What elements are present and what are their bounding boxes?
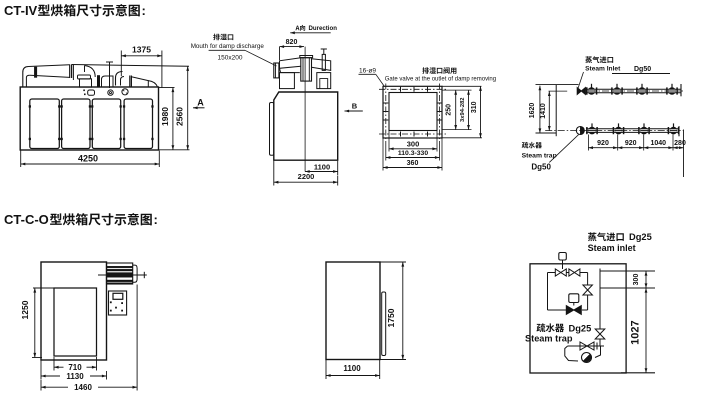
dim 300 cco	[645, 271, 647, 288]
cco fan	[98, 263, 147, 284]
steam inlet labels cco	[588, 232, 624, 241]
cco front body	[41, 262, 107, 360]
dim 1027	[621, 372, 655, 374]
side door leaf	[270, 103, 274, 156]
svg-text:250: 250	[445, 104, 452, 116]
svg-text:1040: 1040	[651, 140, 667, 147]
dim 4250	[20, 151, 22, 168]
svg-text:Dg25: Dg25	[629, 232, 652, 242]
cco side door leaf	[382, 292, 386, 356]
svg-text:1100: 1100	[343, 364, 361, 373]
svg-text:1100: 1100	[314, 162, 330, 171]
cco control panel	[109, 291, 127, 315]
dim 710	[53, 357, 55, 371]
svg-text:820: 820	[286, 39, 298, 46]
steam trap labels	[522, 142, 542, 148]
dim 1100 cco	[325, 360, 327, 379]
dim 1460	[136, 285, 138, 391]
cco front door	[54, 288, 97, 356]
svg-text::: :	[154, 212, 158, 227]
dim 2560	[159, 149, 190, 151]
top steam pipe	[577, 84, 683, 97]
svg-text:1130: 1130	[66, 372, 84, 381]
dim 1980	[159, 87, 175, 89]
svg-text:300: 300	[407, 139, 420, 148]
svg-text:A: A	[197, 98, 204, 108]
svg-text:2200: 2200	[298, 172, 315, 181]
svg-text:1410: 1410	[540, 103, 547, 119]
dims 1620 1410	[536, 84, 579, 86]
svg-text:310: 310	[471, 101, 478, 113]
cco piping internals	[548, 253, 656, 363]
dim 1375	[121, 55, 162, 57]
CT-IV front view doors	[29, 99, 154, 149]
damp discharge label	[213, 34, 233, 41]
svg-text:3x94-282: 3x94-282	[460, 97, 466, 122]
cco piping box	[530, 264, 626, 373]
dim 820	[279, 47, 281, 60]
svg-text:Steam trap: Steam trap	[525, 333, 573, 343]
side view top structure	[274, 49, 331, 89]
svg-text:110.3-330: 110.3-330	[398, 150, 428, 157]
svg-text:2560: 2560	[174, 107, 184, 126]
flange frame	[379, 84, 446, 142]
svg-text:360: 360	[407, 160, 419, 167]
flange bottom dims 300 110.3-330 360	[383, 131, 442, 171]
svg-text:1980: 1980	[160, 107, 170, 126]
svg-text:Gate valve at the outlet of da: Gate valve at the outlet of damp removin…	[385, 77, 496, 83]
svg-text:710: 710	[68, 363, 82, 372]
steam trap labels cco	[536, 323, 564, 332]
svg-text:Durection: Durection	[309, 25, 338, 32]
pipe bottom dims 920 920 1040 280	[588, 130, 686, 178]
svg-text:1460: 1460	[74, 383, 92, 392]
svg-text:Dg50: Dg50	[634, 66, 651, 73]
dim 1130	[40, 361, 42, 380]
svg-text:4250: 4250	[78, 154, 98, 164]
svg-text:300: 300	[633, 274, 640, 286]
cco side body	[326, 262, 380, 360]
svg-text:150x200: 150x200	[218, 55, 243, 62]
svg-text:1620: 1620	[529, 103, 536, 119]
bottom steam pipe	[545, 123, 683, 136]
front header widgets	[83, 89, 128, 96]
flange right dims 250 282 310	[442, 86, 482, 138]
svg-text:920: 920	[597, 140, 609, 147]
svg-text::: :	[142, 3, 146, 18]
svg-text:1027: 1027	[630, 320, 642, 344]
side view center line	[304, 47, 306, 172]
side view body	[274, 92, 338, 160]
svg-text:CT-C-O: CT-C-O	[4, 212, 49, 227]
svg-text:920: 920	[625, 140, 637, 147]
svg-text:Steam inlet: Steam inlet	[588, 243, 636, 253]
dim 2200	[273, 161, 275, 186]
flange label gate valve	[422, 67, 456, 74]
svg-text:Steam trap: Steam trap	[522, 152, 557, 159]
svg-text:Dg25: Dg25	[569, 324, 592, 334]
svg-text:1250: 1250	[20, 300, 30, 319]
steam inlet labels top	[585, 56, 613, 63]
CT-IV front view body	[20, 87, 158, 150]
svg-text:Mouth for damp discharge: Mouth for damp discharge	[191, 43, 265, 50]
svg-text:280: 280	[674, 140, 686, 147]
svg-text:1750: 1750	[386, 308, 396, 327]
top pipe assembly	[23, 51, 189, 89]
svg-text:16-ø9: 16-ø9	[359, 68, 376, 75]
dim 1100 side	[337, 161, 339, 175]
dim 1750	[381, 261, 407, 263]
svg-text:CT-IV: CT-IV	[4, 3, 38, 18]
svg-text:Dg50: Dg50	[531, 163, 551, 172]
side view label A direction	[295, 25, 305, 31]
dim 1250	[33, 287, 54, 289]
svg-text:1375: 1375	[132, 45, 151, 55]
svg-text:Steam Inlet: Steam Inlet	[585, 65, 621, 72]
svg-text:B: B	[352, 102, 358, 111]
